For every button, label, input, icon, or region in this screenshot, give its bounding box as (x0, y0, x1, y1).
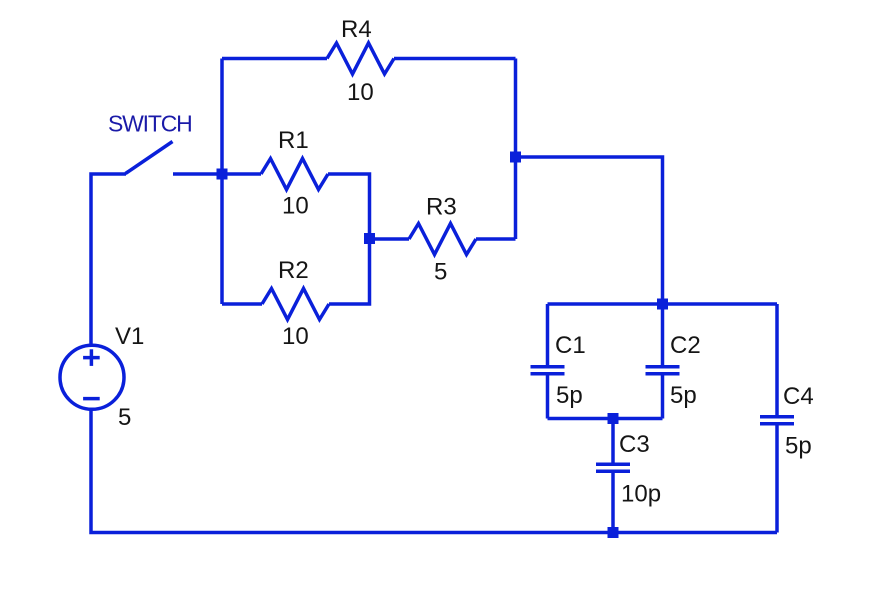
svg-text:10: 10 (282, 323, 309, 350)
svg-text:C1: C1 (555, 332, 586, 359)
svg-text:10p: 10p (621, 481, 661, 508)
svg-text:5: 5 (434, 259, 447, 286)
svg-text:SWITCH: SWITCH (108, 111, 192, 137)
svg-text:C4: C4 (783, 383, 814, 410)
svg-text:5p: 5p (785, 433, 812, 460)
svg-text:C3: C3 (619, 431, 650, 458)
svg-text:5p: 5p (670, 382, 697, 409)
svg-text:R2: R2 (278, 257, 309, 284)
svg-text:V1: V1 (115, 323, 144, 350)
svg-text:10: 10 (347, 79, 374, 106)
svg-text:R4: R4 (341, 16, 372, 43)
svg-text:10: 10 (282, 193, 309, 220)
svg-text:5: 5 (118, 404, 131, 431)
svg-text:R1: R1 (278, 127, 309, 154)
svg-text:R3: R3 (426, 194, 457, 221)
svg-text:5p: 5p (556, 382, 583, 409)
svg-text:C2: C2 (670, 332, 701, 359)
